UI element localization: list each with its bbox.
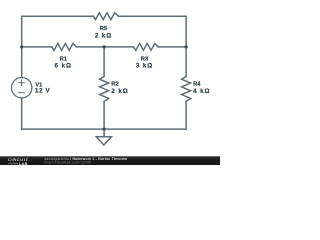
wire R2 to ground node: [103, 101, 105, 129]
svg-text:2 kΩ: 2 kΩ: [95, 32, 112, 39]
wire top-right corner: [118, 16, 186, 47]
svg-text:LAB: LAB: [19, 162, 28, 165]
ground stub: [103, 129, 105, 137]
ground node junction: [103, 128, 106, 131]
svg-text:R2: R2: [111, 82, 118, 88]
wire V1 to bottom rail: [21, 98, 23, 129]
resistor R4: [182, 76, 191, 101]
logo resistor squiggle: [8, 163, 18, 165]
wire node C to R2: [103, 47, 105, 76]
resistor R5: [93, 13, 118, 20]
wire top-left corner: [22, 16, 94, 47]
wire node A to R1: [22, 46, 52, 48]
node C junction: [103, 45, 106, 48]
svg-text:4 kΩ: 4 kΩ: [193, 88, 210, 95]
svg-text:http://circuitlab.com/cj29f6: http://circuitlab.com/cj29f6: [44, 160, 91, 164]
resistor R1: [52, 43, 77, 50]
svg-text:3 kΩ: 3 kΩ: [136, 63, 153, 70]
wire R4 to bottom rail: [185, 101, 187, 129]
svg-text:R4: R4: [193, 82, 201, 88]
svg-text:2 kΩ: 2 kΩ: [111, 88, 128, 95]
svg-text:R5: R5: [100, 26, 108, 32]
node A junction: [20, 45, 23, 48]
svg-text:R1: R1: [60, 56, 68, 62]
wire node A to V1: [21, 47, 23, 78]
svg-text:R3: R3: [141, 56, 149, 62]
wire R3 to node B: [158, 46, 186, 48]
voltage source V1: [12, 78, 32, 98]
wire bottom rail: [22, 128, 186, 130]
resistor R3: [133, 43, 158, 50]
ground: [96, 137, 111, 145]
node B junction: [185, 45, 188, 48]
resistor R2: [100, 76, 109, 101]
wire R1 to R3: [77, 46, 134, 48]
svg-text:12 V: 12 V: [35, 88, 51, 95]
V1 minus sign: [19, 92, 25, 94]
wire node B to R4: [185, 47, 187, 76]
svg-text:6 kΩ: 6 kΩ: [55, 63, 72, 70]
V1 plus sign: [19, 80, 25, 86]
